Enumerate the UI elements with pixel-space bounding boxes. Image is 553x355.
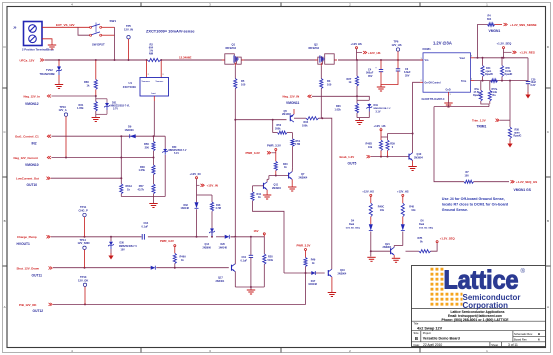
resistor R39 0 <box>386 137 395 157</box>
svg-text:PWR_3.3V: PWR_3.3V <box>246 151 260 155</box>
ground at Q21 <box>392 257 400 259</box>
net flag +1.2V_SNS_SENSE / VMON1 <box>489 23 537 33</box>
svg-text:100: 100 <box>327 83 332 87</box>
svg-text:Dual: Dual <box>419 223 425 226</box>
wire R34 node to Q16 collector <box>319 118 332 269</box>
net flag Out1_Control_C12 / IN2 <box>15 134 51 145</box>
resistor R30 1.05k <box>139 165 156 184</box>
capacitor C61 0.1uF <box>241 237 254 287</box>
transistor Q10 2N3904 <box>409 134 423 167</box>
resistor R57a 24.9k on trim rail <box>491 79 498 97</box>
capacitor C20 10uF 6.3V <box>526 58 537 93</box>
svg-text:VMON12: VMON12 <box>25 102 39 106</box>
svg-text:R5: R5 <box>241 79 245 83</box>
svg-text:Neg_12V_IN: Neg_12V_IN <box>283 95 300 99</box>
note ground sense text <box>442 197 509 212</box>
power pin PWR_3.3V at R46A <box>160 239 176 246</box>
net flag Charge_Pump / HVOUT1 <box>17 235 51 246</box>
ground at cluster <box>247 289 255 291</box>
wire R40 node to Q11 and Q7 <box>269 176 289 180</box>
svg-text:5V4_SD_SEQ: 5V4_SD_SEQ <box>419 227 433 230</box>
svg-text:Neg_12V_In: Neg_12V_In <box>24 94 41 98</box>
wire Shut_12V_Down line <box>53 267 229 269</box>
resistor R56a 47.5k to gs rail <box>473 81 489 104</box>
svg-text:0.1uF: 0.1uF <box>142 226 149 229</box>
svg-text:12.3496E: 12.3496E <box>179 56 191 60</box>
power pin +1.2V_SEQ at R7B <box>436 237 455 243</box>
testpoint TP11 CHG_P <box>79 205 88 237</box>
power pin +12V_HS at bus <box>351 42 381 60</box>
svg-text:LowCurrent_Out: LowCurrent_Out <box>16 176 39 180</box>
svg-text:D30: D30 <box>120 242 125 245</box>
svg-text:100: 100 <box>465 175 470 178</box>
wire IN2 line <box>52 135 166 137</box>
svg-text:Date:: Date: <box>414 343 420 347</box>
wire Neg_12V_In to R31 cluster <box>52 95 97 97</box>
ground at C4 C6 <box>377 86 385 88</box>
svg-text:+12V_HS: +12V_HS <box>362 189 374 193</box>
wire DCM1 GnD to ground rail <box>448 96 450 103</box>
svg-text:D51: D51 <box>112 102 117 105</box>
svg-text:12V_OK: 12V_OK <box>78 279 88 283</box>
title block text <box>414 310 541 347</box>
svg-text:Enab_1.2V: Enab_1.2V <box>340 155 355 159</box>
svg-text:Board Rev: Board Rev <box>514 338 527 342</box>
svg-text:+12V_IN: +12V_IN <box>190 172 201 176</box>
resistor R5 100 Q1 gate <box>234 66 246 89</box>
svg-text:+12V_HS: +12V_HS <box>374 124 386 128</box>
power pin +12V_HS at R48 <box>397 189 409 203</box>
svg-text:+1.2V_SEQ: +1.2V_SEQ <box>440 237 456 241</box>
power pin +1.2V_SEQ <box>497 41 513 58</box>
svg-text:200: 200 <box>145 145 150 149</box>
resistor R41 1k <box>251 186 284 273</box>
wire R39 to On/Off line <box>388 133 414 138</box>
svg-text:2 Position TerminalBlock: 2 Position TerminalBlock <box>22 48 54 52</box>
ground at Q16 <box>328 292 336 294</box>
net flag Enab_1.2V / OUT5 <box>340 155 371 166</box>
resistor R49 1k <box>304 251 316 275</box>
resistor R7B 0 <box>406 237 438 253</box>
switch SW1 SW DPST <box>90 19 117 46</box>
resistor R27 1k <box>347 61 359 97</box>
net flag +1.2V_SEQ_GS / VMON1 GS <box>511 180 538 192</box>
power pin PWR_3.3V at R49 <box>297 244 311 251</box>
svg-text:Vsense-: Vsense- <box>156 81 164 83</box>
svg-text:TP6: TP6 <box>394 40 399 44</box>
capacitor C4 560uF 35V <box>366 61 383 87</box>
transistor Q7 2N3904 <box>289 167 308 186</box>
svg-text:1.2V @3A: 1.2V @3A <box>433 41 452 46</box>
svg-text:PWR_3.3V: PWR_3.3V <box>297 244 311 248</box>
svg-text:OUT5: OUT5 <box>348 162 357 166</box>
svg-text:2N4401: 2N4401 <box>216 280 225 283</box>
svg-text:+12V_HS: +12V_HS <box>397 189 409 193</box>
svg-text:R3: R3 <box>327 79 331 83</box>
svg-text:R56: R56 <box>144 142 149 146</box>
svg-text:UFCa_12V: UFCa_12V <box>20 58 35 62</box>
wire cluster bottom rail <box>235 286 264 290</box>
svg-text:TVS2: TVS2 <box>46 68 53 72</box>
resistor R40 1k <box>274 161 288 176</box>
net flag UFCa_12V <box>20 58 44 62</box>
ground at DCM1 <box>444 102 452 104</box>
svg-text:IRF9Z34: IRF9Z34 <box>226 46 237 50</box>
svg-text:Vin: Vin <box>425 59 429 62</box>
svg-text:12V_IN: 12V_IN <box>124 28 133 32</box>
svg-text:ZXCT1009= 10mA/V-sense: ZXCT1009= 10mA/V-sense <box>146 29 195 34</box>
resistor R40C 10k <box>369 203 384 224</box>
svg-text:1N4148: 1N4148 <box>219 246 228 249</box>
wire Q2 gate to R43 node <box>320 89 322 119</box>
svg-text:TP10: TP10 <box>60 105 67 109</box>
svg-text:Size: Size <box>414 331 420 335</box>
wire ground sense loop <box>434 103 489 182</box>
transistor Q11 2N3904 <box>264 179 282 194</box>
ground at Q11 <box>263 194 271 196</box>
diode D50 MMSZ5251B zener <box>162 136 186 196</box>
resistor R7 100 <box>464 171 509 183</box>
svg-text:TP5: TP5 <box>126 24 131 28</box>
Lattice logo wordmark <box>444 265 526 311</box>
resistor R57b 24.9k to gs rail <box>488 81 491 104</box>
wire DCM1 On/Off control <box>413 82 420 133</box>
svg-text:4.7M: 4.7M <box>295 143 301 146</box>
svg-text:TRANZORB: TRANZORB <box>40 72 55 76</box>
net flag LowCurrent_Out / OUT10 <box>16 176 50 187</box>
svg-text:1.02k: 1.02k <box>335 108 342 111</box>
svg-text:RpadA: RpadA <box>473 94 481 97</box>
diode D21a 1N5819 label <box>203 243 212 249</box>
diode D4 dual 5V4_SD_SEQ left <box>346 220 373 257</box>
svg-text:+1.2V_REG: +1.2V_REG <box>520 51 536 55</box>
wire Q16 base line <box>284 272 325 274</box>
wire SW1 to main 12V bus <box>102 27 115 60</box>
svg-text:P/B_12V_OK: P/B_12V_OK <box>19 303 37 307</box>
svg-text:B: B <box>538 332 540 336</box>
svg-text:TRIM1: TRIM1 <box>477 125 487 129</box>
net flag +1.2V_REG <box>504 51 536 55</box>
svg-text:Vout: Vout <box>460 57 466 60</box>
svg-text:6.3V: 6.3V <box>531 84 536 87</box>
power arrow at D30 <box>108 256 113 260</box>
svg-text:Lattice: Lattice <box>444 265 519 295</box>
net flag Trim_1.2V / TRIM1 <box>472 118 510 128</box>
resistor R56 200 <box>144 136 155 165</box>
svg-text:Dual: Dual <box>349 223 355 226</box>
svg-text:Schematic Rev:: Schematic Rev: <box>514 332 533 336</box>
transistor Q21 2N3904 <box>383 243 403 258</box>
TVS2 TRANZORB suppressor <box>40 61 62 85</box>
svg-text:Q2: Q2 <box>314 43 318 47</box>
svg-text:R31: R31 <box>79 103 84 107</box>
wire OUT10 line <box>51 177 121 179</box>
IC U1 ZXCT1009 current monitor <box>123 61 169 101</box>
wire divider bottom rail <box>121 197 165 204</box>
title block frame <box>412 266 546 347</box>
ground at R36 D19 <box>355 120 363 122</box>
svg-text:Versatile Demo Board: Versatile Demo Board <box>423 337 460 341</box>
svg-text:VMON1 GS: VMON1 GS <box>514 188 532 192</box>
svg-text:10k: 10k <box>411 209 416 212</box>
svg-text:22 April 2010: 22 April 2010 <box>423 343 442 347</box>
ground at D4 <box>367 256 375 258</box>
IC DCM1 DC-DC module <box>420 41 474 102</box>
svg-text:ZXCT1009: ZXCT1009 <box>123 85 137 89</box>
svg-text:Charge_Pump: Charge_Pump <box>17 235 37 239</box>
svg-text:Trim: Trim <box>461 80 467 83</box>
svg-text:R66: R66 <box>84 80 89 84</box>
diode D9 1N4003 <box>125 124 136 138</box>
transistor Q16 2N3904 <box>328 269 347 292</box>
svg-text:J9: J9 <box>13 26 17 30</box>
svg-text:R57: R57 <box>139 184 144 188</box>
power arrow at R58 <box>507 144 512 148</box>
wire J9 pin2 to ground <box>42 39 52 45</box>
resistor R55 10.0k RpadD <box>500 58 512 81</box>
svg-text:1N4148: 1N4148 <box>181 207 190 210</box>
resistor R4 604 sense tap <box>478 14 503 57</box>
svg-text:+12V HS: +12V HS <box>351 42 362 46</box>
wire Trim rail <box>474 80 528 82</box>
wire Q1 gate drive line <box>234 89 236 237</box>
svg-text:OUT10: OUT10 <box>27 183 38 187</box>
resistor R18 4.7M <box>197 195 222 237</box>
svg-text:CHG_P: CHG_P <box>79 209 88 213</box>
ground at TVS2 <box>55 84 63 86</box>
svg-text:D50: D50 <box>172 146 177 149</box>
testpoint TP14 12V_SDN <box>78 238 90 268</box>
wire OUT12 line <box>53 273 306 305</box>
diode D51 MMSZ5251B zener <box>96 99 131 115</box>
svg-text:R27: R27 <box>347 77 352 81</box>
wire cluster bottom rail / ground stem <box>357 118 369 120</box>
transistor Q5 2N4403 PNP <box>282 109 294 122</box>
svg-text:Phone: (503) 268-8001 or 1 (80: Phone: (503) 268-8001 or 1 (800) LATTICE <box>442 318 510 322</box>
resistor R48 10k <box>401 203 416 224</box>
testpoint TP13 12V_OK <box>78 275 88 304</box>
ground at R31 <box>92 117 100 119</box>
svg-text:Trim_1.2V: Trim_1.2V <box>472 118 486 122</box>
diode D20 1N4148 series <box>219 235 230 250</box>
svg-text:On/Off TB-On/Off-C: On/Off TB-On/Off-C <box>422 98 445 101</box>
wire main 12V bus <box>45 59 424 61</box>
svg-text:10V: 10V <box>121 248 126 251</box>
svg-text:VMON10: VMON10 <box>25 163 39 167</box>
wire EXT_VS_12V from J9 to SW1 <box>42 23 90 27</box>
wire Enab line to Q10 base <box>371 156 409 158</box>
resistor R66 1k <box>84 61 97 97</box>
svg-text:PWR_3.3V: PWR_3.3V <box>160 239 174 243</box>
svg-text:3 of 11: 3 of 11 <box>508 343 518 347</box>
resistor R31 1.05k <box>77 96 97 117</box>
svg-text:PWR_3.3V: PWR_3.3V <box>267 144 281 148</box>
svg-text:2N3906: 2N3906 <box>203 246 212 249</box>
svg-text:NM: NM <box>149 52 153 56</box>
svg-text:HVOUT1: HVOUT1 <box>17 242 31 246</box>
svg-text:Neg_12V_Current: Neg_12V_Current <box>14 156 38 160</box>
svg-text:100k: 100k <box>302 125 308 128</box>
power arrow at C20 <box>525 95 530 99</box>
svg-text:On-Off Control: On-Off Control <box>425 81 441 84</box>
wire trim stub <box>509 81 511 121</box>
svg-text:IRF9Z34: IRF9Z34 <box>309 46 320 50</box>
resistor R36 1.02k <box>335 96 359 117</box>
svg-text:Use J4 for Off-board Ground Se: Use J4 for Off-board Ground Sense, <box>442 197 505 201</box>
svg-text:®: ® <box>521 268 526 275</box>
svg-text:locate R7 close to DCM1 for On: locate R7 close to DCM1 for On-board <box>442 202 509 206</box>
svg-text:Project: Project <box>423 331 431 335</box>
diode D17 1N4148 <box>308 271 317 286</box>
svg-text:R30: R30 <box>140 165 145 169</box>
resistor R51 4.7M <box>291 133 301 168</box>
svg-text:12V_HS: 12V_HS <box>392 43 402 47</box>
svg-text:+12V_HS: +12V_HS <box>368 51 381 55</box>
svg-text:2N3904: 2N3904 <box>414 156 423 159</box>
svg-text:43.7k: 43.7k <box>138 188 145 192</box>
svg-text:D19: D19 <box>374 104 379 107</box>
svg-text:GnD: GnD <box>446 89 451 92</box>
svg-text:+1.2V_SNS_SENSE: +1.2V_SNS_SENSE <box>510 23 537 27</box>
svg-text:SW1: SW1 <box>110 19 117 23</box>
svg-text:+1.2V_SEQ: +1.2V_SEQ <box>497 41 513 45</box>
svg-text:B: B <box>415 336 418 341</box>
testpoint TP6 12V_HS <box>392 40 402 61</box>
svg-text:Out1_Control_C1: Out1_Control_C1 <box>15 134 39 138</box>
net flag Shut_12V_Down / OUT11 <box>17 266 53 277</box>
testpoint TP5 12V_IN <box>124 24 133 60</box>
svg-text:3.1V: 3.1V <box>376 110 381 113</box>
power pin PWR_3.3V at R40 <box>246 144 281 162</box>
svg-text:2N3904: 2N3904 <box>272 187 281 190</box>
transistor Q2 IRF9Z34 pass MOSFET <box>309 43 338 66</box>
svg-text:1N4003: 1N4003 <box>125 128 135 132</box>
ground at Q7 <box>288 186 296 188</box>
resistor R2 604 sense <box>148 43 161 62</box>
svg-text:VMON1: VMON1 <box>489 29 501 33</box>
svg-text:TP11: TP11 <box>80 205 87 209</box>
svg-text:SW DPST: SW DPST <box>92 43 105 47</box>
svg-text:D9: D9 <box>128 124 132 128</box>
svg-text:Shut_12V_Down: Shut_12V_Down <box>17 266 40 270</box>
svg-text:0.1uF: 0.1uF <box>241 260 248 263</box>
svg-text:Q1: Q1 <box>232 43 236 47</box>
svg-text:4x2 Swap 12V: 4x2 Swap 12V <box>417 327 443 331</box>
svg-text:Sheet: Sheet <box>491 343 498 347</box>
svg-text:EXT_VS_12V: EXT_VS_12V <box>56 23 75 27</box>
svg-text:4.7M: 4.7M <box>216 207 221 210</box>
resistor R40D 10k <box>366 140 383 157</box>
diode D62 1N4148 <box>181 195 199 237</box>
wire cluster top rail <box>357 99 369 101</box>
svg-text:12V_SDN: 12V_SDN <box>78 241 90 245</box>
resistor R34 100k <box>294 117 323 128</box>
resistor R28 510k <box>263 237 274 287</box>
svg-text:+1.2V_SEQ_GS: +1.2V_SEQ_GS <box>516 180 537 184</box>
testpoint TP10 12V_A <box>59 105 68 158</box>
svg-text:3.7V: 3.7V <box>113 108 118 111</box>
capacitor C6 6.8uF 35V <box>381 61 411 87</box>
net flag Neg_12V_In / VMON12 <box>24 94 52 105</box>
capacitor C64 0.1uF label <box>142 222 149 228</box>
svg-text:U1: U1 <box>129 81 133 85</box>
resistor R50 200k <box>273 120 293 135</box>
svg-text:35V: 35V <box>368 75 373 78</box>
svg-text:Title: Title <box>414 322 419 326</box>
wire D4 node to Q21 base <box>371 250 391 252</box>
ground at Q10 <box>408 166 416 168</box>
svg-text:Iout: Iout <box>152 92 156 95</box>
diode D21a TVS on line <box>209 228 215 236</box>
resistor R57 43.7k <box>138 184 156 197</box>
svg-text:R61A: R61A <box>126 184 133 188</box>
resistor R61A 1k <box>120 136 133 196</box>
ground at divider stack <box>149 203 157 205</box>
wire second pole feed <box>78 27 90 35</box>
resistor R46A 1k <box>173 247 186 268</box>
connector J9 2-position terminal block <box>13 22 54 52</box>
svg-text:+12V_IN: +12V_IN <box>207 184 218 188</box>
diode on shut line <box>151 266 156 270</box>
net flag Neg_12V_IN / VMON11 <box>283 95 312 105</box>
svg-text:2N3904: 2N3904 <box>338 272 347 275</box>
wire Charge_Pump line <box>51 236 236 238</box>
svg-text:OUT11: OUT11 <box>32 274 43 278</box>
transistor Q17 2N4401 <box>216 238 236 287</box>
svg-text:1.05k: 1.05k <box>139 168 146 172</box>
svg-text:5.1V: 5.1V <box>174 152 179 155</box>
svg-text:Corporation: Corporation <box>463 300 509 310</box>
svg-text:10k: 10k <box>380 209 385 212</box>
svg-text:1.05k: 1.05k <box>77 106 84 110</box>
net flag Neg_12V_Current / VMON10 <box>14 156 52 167</box>
power pin +12V_IN <box>190 172 218 195</box>
svg-text:Ground Sense.: Ground Sense. <box>442 208 468 212</box>
svg-text:2N3904: 2N3904 <box>299 177 308 180</box>
wire Neg_12V_IN to cluster <box>312 95 369 100</box>
wire Q1 gate to Q5 base <box>234 119 286 121</box>
svg-text:RpadG: RpadG <box>514 135 522 138</box>
Lattice logo orange dot matrix <box>431 269 463 304</box>
svg-text:510k: 510k <box>268 259 274 262</box>
svg-text:TP14: TP14 <box>80 238 87 242</box>
svg-text:IN2: IN2 <box>32 142 37 146</box>
diode D30 MMSZ5240B zener <box>108 237 137 254</box>
transistor Q1 IRF9Z34 pass MOSFET <box>222 43 244 66</box>
svg-text:35V: 35V <box>405 74 410 77</box>
net flag P/B_12V_OK / OUT12 <box>19 303 52 313</box>
wire U1 output to IN2 line <box>153 101 155 136</box>
resistor R44 open RpadB <box>481 58 493 81</box>
svg-text:5V4_SD_SEQ: 5V4_SD_SEQ <box>346 227 360 230</box>
svg-text:200k: 200k <box>275 128 281 131</box>
svg-text:2N3904: 2N3904 <box>383 246 392 249</box>
svg-text:100: 100 <box>241 83 246 87</box>
svg-text:10k: 10k <box>368 146 373 149</box>
capacitor C64 0.1uF series <box>142 234 144 240</box>
svg-text:16V: 16V <box>254 229 259 233</box>
wire Vout rail <box>474 57 528 59</box>
resistor R58 open RpadG <box>508 120 521 141</box>
svg-text:TP13: TP13 <box>80 275 87 279</box>
svg-text:604: 604 <box>487 18 492 21</box>
diode D6 dual 5V4_SD_SEQ right <box>401 220 433 246</box>
svg-text:RpadB: RpadB <box>485 73 493 76</box>
svg-text:1N4148: 1N4148 <box>308 283 317 286</box>
svg-text:A: A <box>547 305 549 309</box>
power pin +12V_HS at R40D <box>374 124 388 140</box>
svg-text:OUT12: OUT12 <box>33 309 44 313</box>
